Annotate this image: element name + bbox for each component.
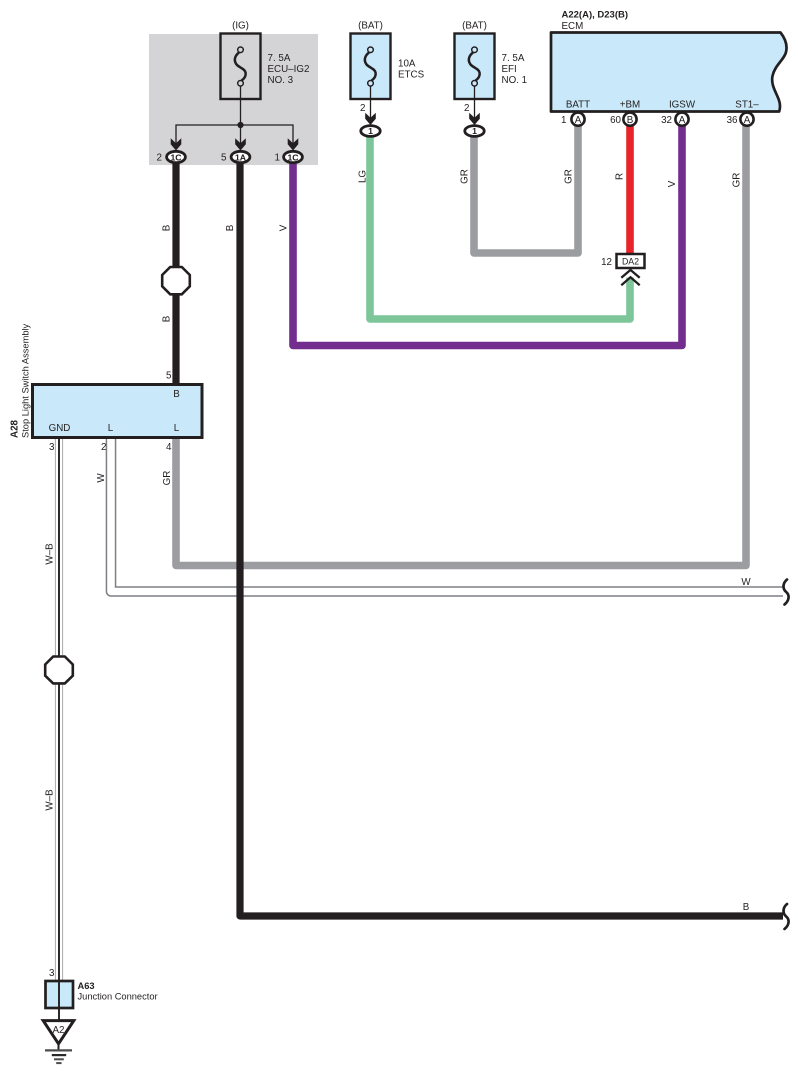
svg-text:+BM: +BM: [620, 100, 640, 111]
break squiggle on wire B: [783, 904, 788, 929]
fuse EFI output line: [474, 86, 476, 120]
svg-text:(BAT): (BAT): [462, 21, 487, 32]
arrow into connector 5-1A: [235, 138, 246, 150]
connector oval 1C (pin 1): [284, 151, 303, 162]
svg-text:5: 5: [221, 153, 227, 164]
connector oval 1 (EFI): [465, 126, 484, 137]
ECM pin circle B (+BM): [623, 113, 636, 126]
arrow into connector 1-1C: [288, 138, 299, 150]
svg-text:2: 2: [464, 103, 469, 114]
connector oval 1 (ETCS): [361, 126, 380, 137]
svg-text:W–B: W–B: [45, 543, 56, 565]
fuse ECU-IG2 NO.3 box: [221, 34, 261, 100]
fuse EFI symbol: [469, 47, 480, 86]
svg-text:EFI: EFI: [502, 64, 517, 75]
wire B (connector 1A to right edge, ground wire): [240, 161, 783, 916]
svg-text:1: 1: [368, 126, 373, 136]
fuse EFI box: [455, 34, 495, 100]
wire R (ECM +BM to DA2): [626, 124, 634, 254]
shield chevrons below DA2: [621, 270, 639, 285]
svg-text:32: 32: [661, 115, 672, 126]
svg-text:W: W: [741, 577, 751, 588]
svg-text:IGSW: IGSW: [669, 100, 696, 111]
svg-text:B: B: [162, 224, 173, 231]
svg-text:12: 12: [601, 257, 612, 268]
svg-text:ETCS: ETCS: [398, 70, 425, 81]
svg-text:1: 1: [561, 115, 566, 126]
svg-text:5: 5: [166, 371, 172, 382]
svg-text:Junction Connector: Junction Connector: [78, 992, 158, 1002]
svg-text:V: V: [667, 180, 678, 187]
svg-text:B: B: [162, 315, 173, 322]
svg-text:R: R: [615, 173, 626, 180]
svg-text:10A: 10A: [398, 59, 416, 70]
svg-text:36: 36: [727, 115, 738, 126]
ground triangle A2: [43, 1021, 74, 1044]
wire B (connector 1C to stop light switch pin5): [172, 161, 179, 385]
svg-text:BATT: BATT: [566, 100, 590, 111]
svg-text:DA2: DA2: [622, 257, 639, 267]
wire LG (fuse ETCS to DA2): [370, 133, 630, 319]
svg-text:B: B: [743, 902, 750, 913]
svg-text:2: 2: [101, 442, 106, 453]
svg-text:A: A: [575, 115, 582, 126]
wire GR (stop light switch pin4 to ECM ST1-): [176, 124, 746, 566]
octagon splice on wire W-B: [45, 657, 73, 684]
ECM box: [551, 33, 787, 112]
svg-text:A63: A63: [78, 981, 95, 991]
svg-text:W: W: [96, 473, 107, 483]
svg-text:NO. 1: NO. 1: [502, 75, 528, 86]
connector oval 1A (pin 5): [231, 151, 250, 162]
wire through A63: [58, 982, 60, 1020]
junction block background: [149, 34, 318, 165]
svg-text:1C: 1C: [170, 152, 182, 162]
svg-text:GR: GR: [460, 169, 471, 184]
ground stub: [58, 1044, 60, 1051]
svg-text:3: 3: [49, 968, 55, 979]
ECM pin circle A (ST1-): [740, 113, 753, 126]
svg-text:LG: LG: [358, 170, 369, 183]
svg-text:A2: A2: [53, 1025, 65, 1036]
svg-text:1: 1: [275, 153, 280, 164]
svg-text:B: B: [627, 115, 634, 126]
arrow into connector (ETCS): [365, 113, 376, 125]
svg-text:ECM: ECM: [562, 21, 584, 32]
svg-text:A: A: [744, 115, 751, 126]
wire W (stop light switch pin2 to right edge): [111, 437, 783, 592]
svg-text:60: 60: [610, 115, 621, 126]
stop light switch box A28: [33, 385, 203, 438]
svg-text:NO. 3: NO. 3: [268, 75, 294, 86]
wire V (connector 1C to ECM IGSW): [293, 124, 682, 346]
svg-text:2: 2: [360, 103, 365, 114]
ECM pin circle A (IGSW): [675, 113, 688, 126]
svg-text:3: 3: [49, 442, 55, 453]
wire W-B (GND pin3 down to A63): [55, 437, 63, 983]
svg-text:L: L: [174, 423, 180, 434]
svg-text:1C: 1C: [287, 152, 299, 162]
svg-text:L: L: [108, 423, 114, 434]
fuse ECU-IG2 symbol: [235, 47, 246, 86]
svg-text:ECU–IG2: ECU–IG2: [268, 64, 310, 75]
svg-text:GND: GND: [49, 423, 71, 434]
svg-text:GR: GR: [564, 169, 575, 184]
ground symbol: [45, 1050, 72, 1063]
svg-text:2: 2: [157, 153, 162, 164]
fuse ETCS symbol: [365, 47, 376, 86]
svg-text:GR: GR: [162, 471, 173, 486]
break squiggle on wire W: [783, 580, 788, 605]
distribution bus from fuse ECU-IG2: [176, 125, 293, 146]
fuse ECU-IG2 feed line: [240, 86, 242, 125]
connector DA2 box: [617, 254, 645, 268]
svg-text:1: 1: [472, 126, 477, 136]
wire GR (fuse EFI to ECM BATT): [474, 124, 578, 253]
svg-text:A28: A28: [10, 419, 21, 438]
svg-text:V: V: [279, 224, 290, 231]
svg-text:A22(A), D23(B): A22(A), D23(B): [562, 10, 629, 21]
svg-text:Stop Light Switch Assembly: Stop Light Switch Assembly: [21, 323, 31, 438]
junction connector A63 box: [46, 981, 74, 1008]
svg-text:7. 5A: 7. 5A: [502, 53, 525, 64]
svg-text:4: 4: [166, 442, 172, 453]
arrow into connector 2-1C: [171, 138, 182, 150]
arrow into connector (EFI): [469, 113, 480, 125]
connector oval 1C (pin 2): [167, 151, 186, 162]
svg-text:A: A: [679, 115, 686, 126]
junction dot: [237, 122, 243, 128]
svg-text:B: B: [225, 224, 236, 231]
fuse ETCS output line: [370, 86, 372, 120]
svg-text:7. 5A: 7. 5A: [268, 53, 291, 64]
octagon splice on wire B: [162, 267, 190, 294]
svg-text:GR: GR: [732, 173, 743, 188]
fuse ETCS box: [351, 34, 391, 100]
ECM pin circle A (BATT): [571, 113, 584, 126]
svg-text:(IG): (IG): [232, 21, 249, 32]
svg-text:(BAT): (BAT): [358, 21, 383, 32]
svg-text:ST1–: ST1–: [735, 100, 759, 111]
svg-text:W–B: W–B: [45, 789, 56, 811]
svg-text:1A: 1A: [235, 152, 247, 162]
svg-text:B: B: [173, 389, 180, 400]
